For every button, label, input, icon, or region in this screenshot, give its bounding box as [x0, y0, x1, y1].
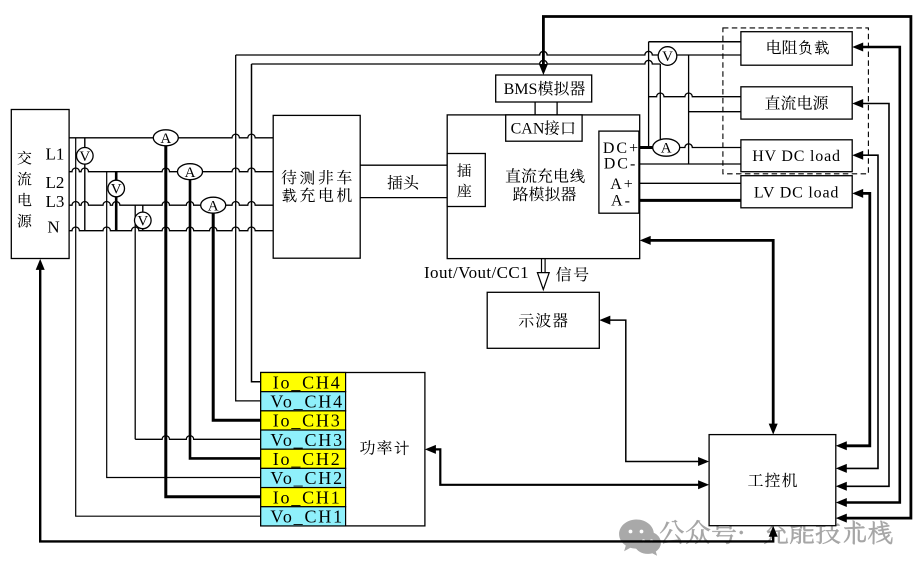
svg-text:A: A [208, 198, 219, 214]
CAN interface box CAN接口 [506, 115, 582, 141]
wire: voltmeter V1 stem L1-N [84, 138, 86, 231]
wire: top sense line to V4 and resistive load [236, 51, 741, 55]
industrial PC box 工控机 [709, 435, 836, 526]
svg-text:L3: L3 [46, 192, 65, 211]
wire: industrial PC to BMS simulator control line [539, 17, 911, 523]
svg-text:CAN: CAN [511, 121, 545, 138]
wire: voltmeter V2 stem L2-N [115, 172, 118, 231]
svg-text:DC-: DC- [604, 155, 638, 172]
wire: DC current line down to power meter Io_CH4 [252, 64, 261, 382]
svg-text:V: V [111, 182, 122, 198]
wire: industrial PC to AC source control line [36, 259, 778, 542]
wire: A+ terminal to LV DC load [639, 182, 741, 184]
AC source box 交流电源 [11, 110, 69, 259]
watermark text 公众号·充能技术栈 [660, 520, 892, 545]
svg-text:Vo_CH1: Vo_CH1 [270, 507, 343, 527]
BMS simulator box BMS模拟器 [496, 75, 592, 102]
svg-text:L2: L2 [46, 173, 65, 192]
wire: oscilloscope to industrial PC link [599, 316, 709, 466]
wire: plug lower conductor [360, 197, 447, 199]
dashed group box for load bank [723, 28, 869, 174]
svg-text:A: A [185, 165, 196, 181]
label 信号 signal [556, 267, 588, 282]
wire: BMS to CAN stub right [556, 102, 558, 115]
wire: voltage tap L2 to power meter Vo_CH2 [107, 172, 261, 478]
voltmeter V3 [135, 212, 152, 230]
oscilloscope box 示波器 [487, 292, 599, 348]
wire: DC source upper feed [649, 93, 741, 97]
wire: AC line L3 [69, 202, 273, 206]
svg-text:Io_CH2: Io_CH2 [273, 449, 342, 469]
charger under test box 待测非车载充电机 [273, 115, 360, 258]
svg-text:A: A [661, 141, 672, 157]
svg-text:Vo_CH4: Vo_CH4 [270, 392, 343, 412]
signal arrow simulator to oscilloscope [537, 259, 549, 290]
wire: A- terminal to LV DC load (thick) [639, 199, 741, 202]
wire: AC neutral N [69, 227, 273, 231]
svg-text:Io_CH3: Io_CH3 [273, 411, 342, 431]
wire: plug upper conductor [360, 164, 447, 166]
wire: top current line to A4 [252, 60, 661, 64]
svg-text:LV DC load: LV DC load [754, 184, 839, 201]
wire: ammeter A2 drop to power meter Io_CH2 [190, 172, 261, 459]
svg-text:V: V [137, 214, 148, 230]
wire: AC line L2 [69, 168, 273, 172]
svg-text:Io_CH4: Io_CH4 [273, 372, 342, 392]
wire: ammeter A3 drop to power meter Io_CH3 [213, 205, 261, 420]
DC terminal box DC+ DC- A+ A- [599, 131, 640, 213]
wire: industrial PC to LV DC load control line [836, 189, 870, 450]
svg-text:HV DC load: HV DC load [752, 148, 841, 165]
wire: A4 to HV DC load [680, 144, 741, 148]
LV DC load box [741, 176, 852, 208]
wire: industrial PC to HV DC load control line [836, 151, 878, 473]
svg-text:Vo_CH2: Vo_CH2 [270, 468, 343, 488]
wire: voltmeter V3 stem L3-N [142, 205, 144, 231]
voltmeter V2 [108, 180, 125, 198]
wire: industrial PC to simulator control line [640, 236, 778, 435]
svg-text:N: N [47, 218, 59, 237]
label Iout/Vout/CC1 [424, 263, 529, 282]
svg-text:Vo_CH3: Vo_CH3 [270, 430, 343, 450]
wire: DC- terminal to HV DC load [639, 163, 741, 165]
DC source box 直流电源 [741, 87, 852, 119]
wire: voltage tap L3 to power meter Vo_CH3 [135, 205, 261, 439]
ammeter A4 on DC output [653, 139, 680, 157]
wire: AC line L1 from AC source to charger [69, 134, 273, 138]
wire: industrial PC to DC source control line [836, 99, 889, 491]
wire: A4 top feed [659, 64, 661, 139]
wire: node DC+ riser to resistive load [648, 42, 650, 148]
wire: resistive load upper feed [649, 41, 741, 43]
wire: ammeter A1 drop to power meter Io_CH1 [166, 138, 261, 497]
ammeter A3 [201, 197, 226, 214]
voltmeter V1 [77, 148, 94, 166]
ammeter A1 [153, 130, 178, 147]
wire: DC source lower feed [689, 111, 741, 113]
svg-text:L1: L1 [46, 144, 65, 163]
power meter box 功率计 with channel terminals [261, 372, 425, 526]
svg-text:Io_CH1: Io_CH1 [273, 487, 342, 507]
svg-text:V: V [662, 49, 673, 65]
wire: DC+ sense line down to power meter Vo_CH4 [236, 55, 261, 401]
wire: V4 negative riser [688, 55, 690, 164]
wire: voltage tap L1 to power meter Vo_CH1 [76, 138, 261, 516]
ammeter A2 [178, 164, 203, 181]
wire: DC+ terminal to ammeter A4 (thick) [639, 146, 653, 149]
svg-text:A+: A+ [610, 176, 635, 193]
svg-text:Iout/Vout/CC1: Iout/Vout/CC1 [424, 263, 529, 282]
svg-text:V: V [79, 149, 90, 165]
wire: industrial PC to resistive load control line [836, 43, 900, 508]
svg-text:A-: A- [611, 193, 632, 210]
wire: BMS to CAN stub left [534, 102, 536, 115]
label 插头 plug [388, 175, 419, 190]
resistive load box 电阻负载 [741, 32, 852, 65]
socket box 插座 [447, 154, 485, 207]
wire: power meter to industrial PC link [425, 445, 709, 489]
voltmeter V4 on DC output [658, 47, 677, 66]
svg-text:A: A [160, 131, 171, 147]
svg-text:BMS: BMS [504, 81, 538, 98]
DC charging line simulator box 直流充电线路模拟器 [447, 115, 640, 259]
watermark logo [619, 520, 661, 556]
HV DC load box [741, 140, 852, 172]
